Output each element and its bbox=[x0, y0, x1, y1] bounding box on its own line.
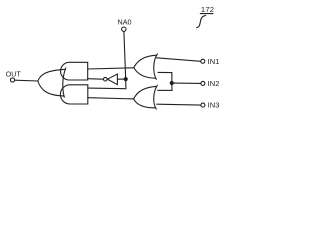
or-gate bottom-right (IN2,IN3) bbox=[134, 85, 158, 109]
junction node IN2 bbox=[170, 81, 173, 84]
wire OUT bbox=[15, 79, 38, 82]
wire and-bottom input2 to or2 output bbox=[88, 98, 134, 99]
and-gate top bbox=[61, 62, 88, 80]
svg-text:OUT: OUT bbox=[6, 71, 22, 78]
label IN2 bbox=[208, 79, 220, 88]
svg-text:IN2: IN2 bbox=[208, 79, 220, 88]
terminal IN3 bbox=[201, 103, 205, 107]
label OUT bbox=[6, 71, 22, 78]
wire IN2 branch up bbox=[158, 72, 172, 83]
svg-text:IN1: IN1 bbox=[208, 57, 220, 66]
inverter bubble bbox=[104, 77, 108, 81]
terminal IN1 bbox=[201, 59, 205, 63]
label IN3 bbox=[208, 101, 220, 110]
wire IN3 bbox=[157, 103, 201, 106]
junction node NA0 bbox=[124, 78, 127, 81]
wire IN2 stub bbox=[173, 82, 201, 84]
or-gate top-right (IN1,IN2) bbox=[134, 54, 158, 80]
label 172 bbox=[201, 5, 214, 14]
leader line from 172 bbox=[197, 15, 206, 27]
wire inverter to node bbox=[117, 78, 124, 80]
label IN1 bbox=[208, 57, 220, 66]
label NA0 bbox=[118, 18, 132, 27]
or-gate left (output) bbox=[38, 68, 66, 97]
terminal IN2 bbox=[201, 81, 205, 85]
wire NA0 vertical bbox=[124, 31, 126, 79]
and-gate bottom bbox=[60, 85, 87, 104]
terminal OUT bbox=[10, 78, 14, 82]
inverter triangle bbox=[108, 74, 118, 85]
underline of 172 bbox=[200, 13, 213, 15]
svg-text:IN3: IN3 bbox=[208, 101, 220, 110]
wire IN1 bbox=[157, 58, 201, 62]
svg-text:172: 172 bbox=[201, 5, 214, 14]
wire and-top input1 to or1 output bbox=[88, 68, 134, 69]
terminal NA0 bbox=[122, 27, 126, 31]
wire and-top input2 to inverter bbox=[88, 78, 103, 81]
svg-text:NA0: NA0 bbox=[118, 18, 132, 27]
wire IN2 branch down bbox=[158, 83, 172, 90]
wire node down bbox=[88, 79, 126, 89]
